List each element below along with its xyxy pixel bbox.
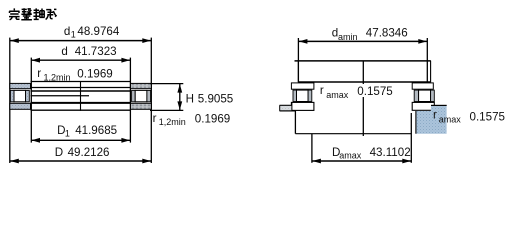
bearing centerline [80,82,82,111]
washer block bottom-left [10,103,31,109]
cage bar left F [308,90,312,101]
shaft top edge [295,60,431,62]
dim line D [10,159,152,164]
svg-text:amax: amax [326,90,349,100]
svg-text:1: 1 [65,128,70,138]
svg-text:amax: amax [339,151,362,161]
svg-text:amax: amax [439,115,462,125]
svg-text:0.1575: 0.1575 [470,110,505,123]
label damin 47.8346 [332,26,408,41]
svg-text:H: H [186,93,194,106]
extension line right outer [150,38,152,163]
H dim ticks [150,84,183,111]
svg-text:0.1575: 0.1575 [357,85,392,98]
label H 5.9055 [186,93,234,106]
cage bar right C [132,90,136,101]
svg-text:5.9055: 5.9055 [198,93,233,106]
svg-text:43.1102: 43.1102 [370,146,411,159]
extension line right inner [129,58,131,143]
cage bar left E [293,90,297,101]
title 完整轴承 [9,8,57,19]
svg-text:d: d [64,25,70,38]
label d1 48.9764 [64,25,120,40]
svg-text:41.9685: 41.9685 [75,124,117,137]
cage bar left A [10,90,14,101]
svg-text:47.8346: 47.8346 [366,26,408,39]
extension line left outer [9,38,11,163]
cage bar right Hh [431,90,435,101]
roller right section [419,90,431,101]
svg-text:41.7323: 41.7323 [75,45,117,58]
bearing middle band lines [31,82,131,111]
top washer right section [412,83,433,89]
shaft left edge [297,61,299,83]
svg-text:D: D [55,146,63,159]
svg-text:49.2126: 49.2126 [68,146,110,159]
roller right [135,90,147,101]
roller left [14,90,26,101]
bottom washer right section [412,102,434,110]
label Damax 43.1102 [332,146,411,161]
washer block top-right [131,83,152,88]
shaft shoulder left [280,102,296,111]
svg-text:d: d [61,45,67,58]
roller left section [297,90,309,101]
housing bore right vertical [410,113,412,163]
figure bottom line [295,133,411,135]
washer block bottom-right [131,103,152,109]
label r12min 0.1969 upper [37,67,113,82]
shaft profile left vertical [294,111,296,134]
label ramax 0.1575 right [433,109,505,125]
cage bar right G [414,90,418,101]
cage bar right D [147,90,151,101]
label D 49.2126 [55,146,110,159]
dim line d1 [10,38,152,43]
Damax extension left [311,134,313,163]
svg-text:0.1969: 0.1969 [77,68,112,81]
label d 41.7323 [61,45,116,58]
svg-text:1,2min: 1,2min [159,117,186,127]
dim line damin [298,39,427,44]
svg-text:1: 1 [71,30,76,40]
svg-text:r: r [153,112,157,125]
svg-text:r: r [433,109,437,122]
dim line d [31,58,130,63]
top washer left section [291,83,314,89]
H dim arrow line [177,84,182,111]
svg-text:amin: amin [338,32,358,42]
extension line damin right [426,38,428,83]
extension line damin left [297,38,299,82]
extension line left inner [30,58,32,143]
label D1 41.9685 [57,124,117,139]
svg-text:0.1969: 0.1969 [195,113,230,126]
bottom washer left section [291,102,314,110]
shaft bottom edge [298,81,430,83]
dim line Damax [312,159,411,164]
svg-text:r: r [320,84,324,97]
svg-text:r: r [37,67,41,80]
shaft right edge [430,61,432,83]
label ramax 0.1575 center [320,84,395,100]
centerline right figure [362,61,364,136]
svg-text:48.9764: 48.9764 [77,25,119,38]
housing shoulder blue [416,105,447,133]
label r12min 0.1969 lower [153,112,231,127]
washer block top-left [10,83,31,88]
dim line D1 [31,138,130,143]
cage bar left B [26,90,30,101]
